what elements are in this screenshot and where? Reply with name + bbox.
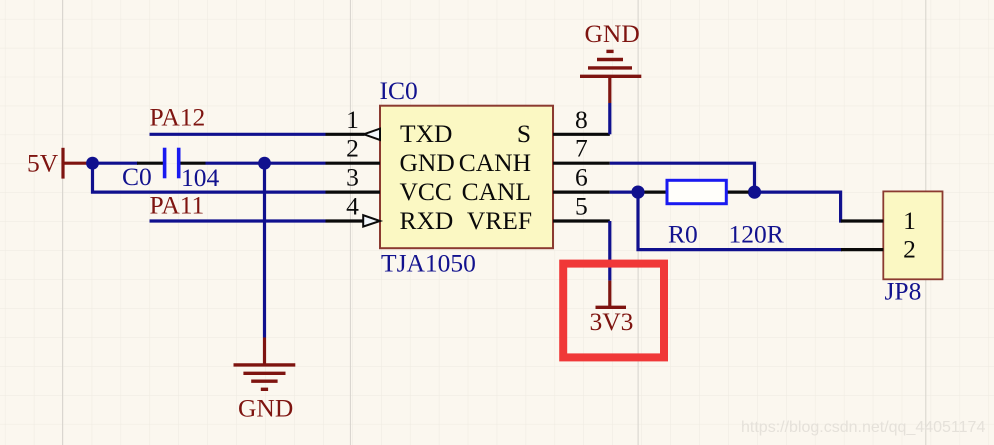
- wire GND branch (junction to ground symbol): [263, 163, 266, 337]
- wire PA11 to pin 4: [150, 219, 326, 222]
- svg-text:VREF: VREF: [467, 206, 532, 235]
- svg-text:4: 4: [346, 192, 359, 221]
- pin 1 (JP8): [841, 206, 916, 235]
- wire C0 to pin 2: [206, 162, 326, 165]
- wire CANL to JP8 pin 2: [638, 192, 842, 250]
- svg-text:120R: 120R: [729, 219, 784, 248]
- svg-text:CANL: CANL: [462, 177, 531, 206]
- svg-text:IC0: IC0: [380, 76, 418, 105]
- junction CANL / R0: [631, 186, 644, 199]
- svg-text:GND: GND: [585, 19, 640, 48]
- junction 5V / VCC branch: [86, 157, 99, 170]
- svg-text:PA12: PA12: [150, 102, 206, 131]
- svg-text:104: 104: [181, 163, 220, 192]
- svg-text:RXD: RXD: [400, 206, 454, 235]
- annotation red box around 3V3: [563, 264, 664, 358]
- svg-text:JP8: JP8: [885, 277, 922, 306]
- resistor R0: [645, 180, 749, 203]
- svg-text:1: 1: [346, 105, 359, 134]
- pin 5 VREF: [553, 192, 610, 222]
- svg-text:CANH: CANH: [459, 148, 531, 177]
- svg-text:6: 6: [575, 163, 588, 192]
- svg-text:7: 7: [575, 134, 588, 163]
- junction GND net: [258, 157, 271, 170]
- pin 2 GND: [326, 134, 381, 164]
- pin 6 CANL: [553, 163, 610, 193]
- connector JP8 body: [883, 191, 942, 279]
- power port 3V3: [590, 281, 634, 336]
- wire 5V rail to C0: [93, 162, 139, 165]
- wire CANL (pin 6 to R0 left): [610, 191, 634, 194]
- svg-text:S: S: [517, 119, 531, 148]
- IC IC0 body: [380, 106, 553, 249]
- svg-text:1: 1: [903, 206, 916, 235]
- wire pin 8 to GND: [608, 103, 611, 134]
- pin 1 TXD: [326, 105, 381, 140]
- pin 4 RXD: [326, 192, 381, 227]
- pin 3 VCC: [326, 163, 381, 193]
- svg-text:https://blog.csdn.net/qq_44051: https://blog.csdn.net/qq_44051174: [741, 419, 985, 436]
- svg-text:GND: GND: [238, 394, 293, 423]
- pin 2 (JP8): [841, 235, 916, 264]
- svg-text:GND: GND: [400, 148, 455, 177]
- svg-text:2: 2: [346, 134, 359, 163]
- svg-text:5V: 5V: [27, 149, 59, 178]
- svg-text:C0: C0: [122, 162, 152, 191]
- ground GND (bottom): [234, 338, 296, 423]
- power port GND (top): [580, 19, 641, 103]
- pin 7 CANH: [553, 134, 610, 164]
- wire PA12 to pin 1: [150, 133, 326, 136]
- wire VCC branch to pin 3: [93, 163, 326, 192]
- svg-text:8: 8: [575, 105, 588, 134]
- svg-text:5: 5: [575, 192, 588, 221]
- wire CANH (pin 7 to R0 right): [610, 163, 755, 192]
- svg-text:TXD: TXD: [400, 119, 452, 148]
- pin 8 S: [553, 105, 610, 135]
- svg-text:2: 2: [903, 235, 916, 264]
- wire R0 to JP8 pin 1: [755, 192, 843, 221]
- svg-text:VCC: VCC: [400, 177, 452, 206]
- power port 5V: [27, 148, 93, 179]
- svg-text:TJA1050: TJA1050: [381, 249, 476, 278]
- svg-text:R0: R0: [668, 219, 698, 248]
- junction CANH / R0: [748, 186, 761, 199]
- svg-text:PA11: PA11: [150, 191, 205, 220]
- svg-text:3V3: 3V3: [590, 307, 634, 336]
- svg-text:3: 3: [346, 163, 359, 192]
- capacitor C0: [137, 148, 206, 179]
- wire VREF (pin 5) to 3V3: [608, 221, 611, 281]
